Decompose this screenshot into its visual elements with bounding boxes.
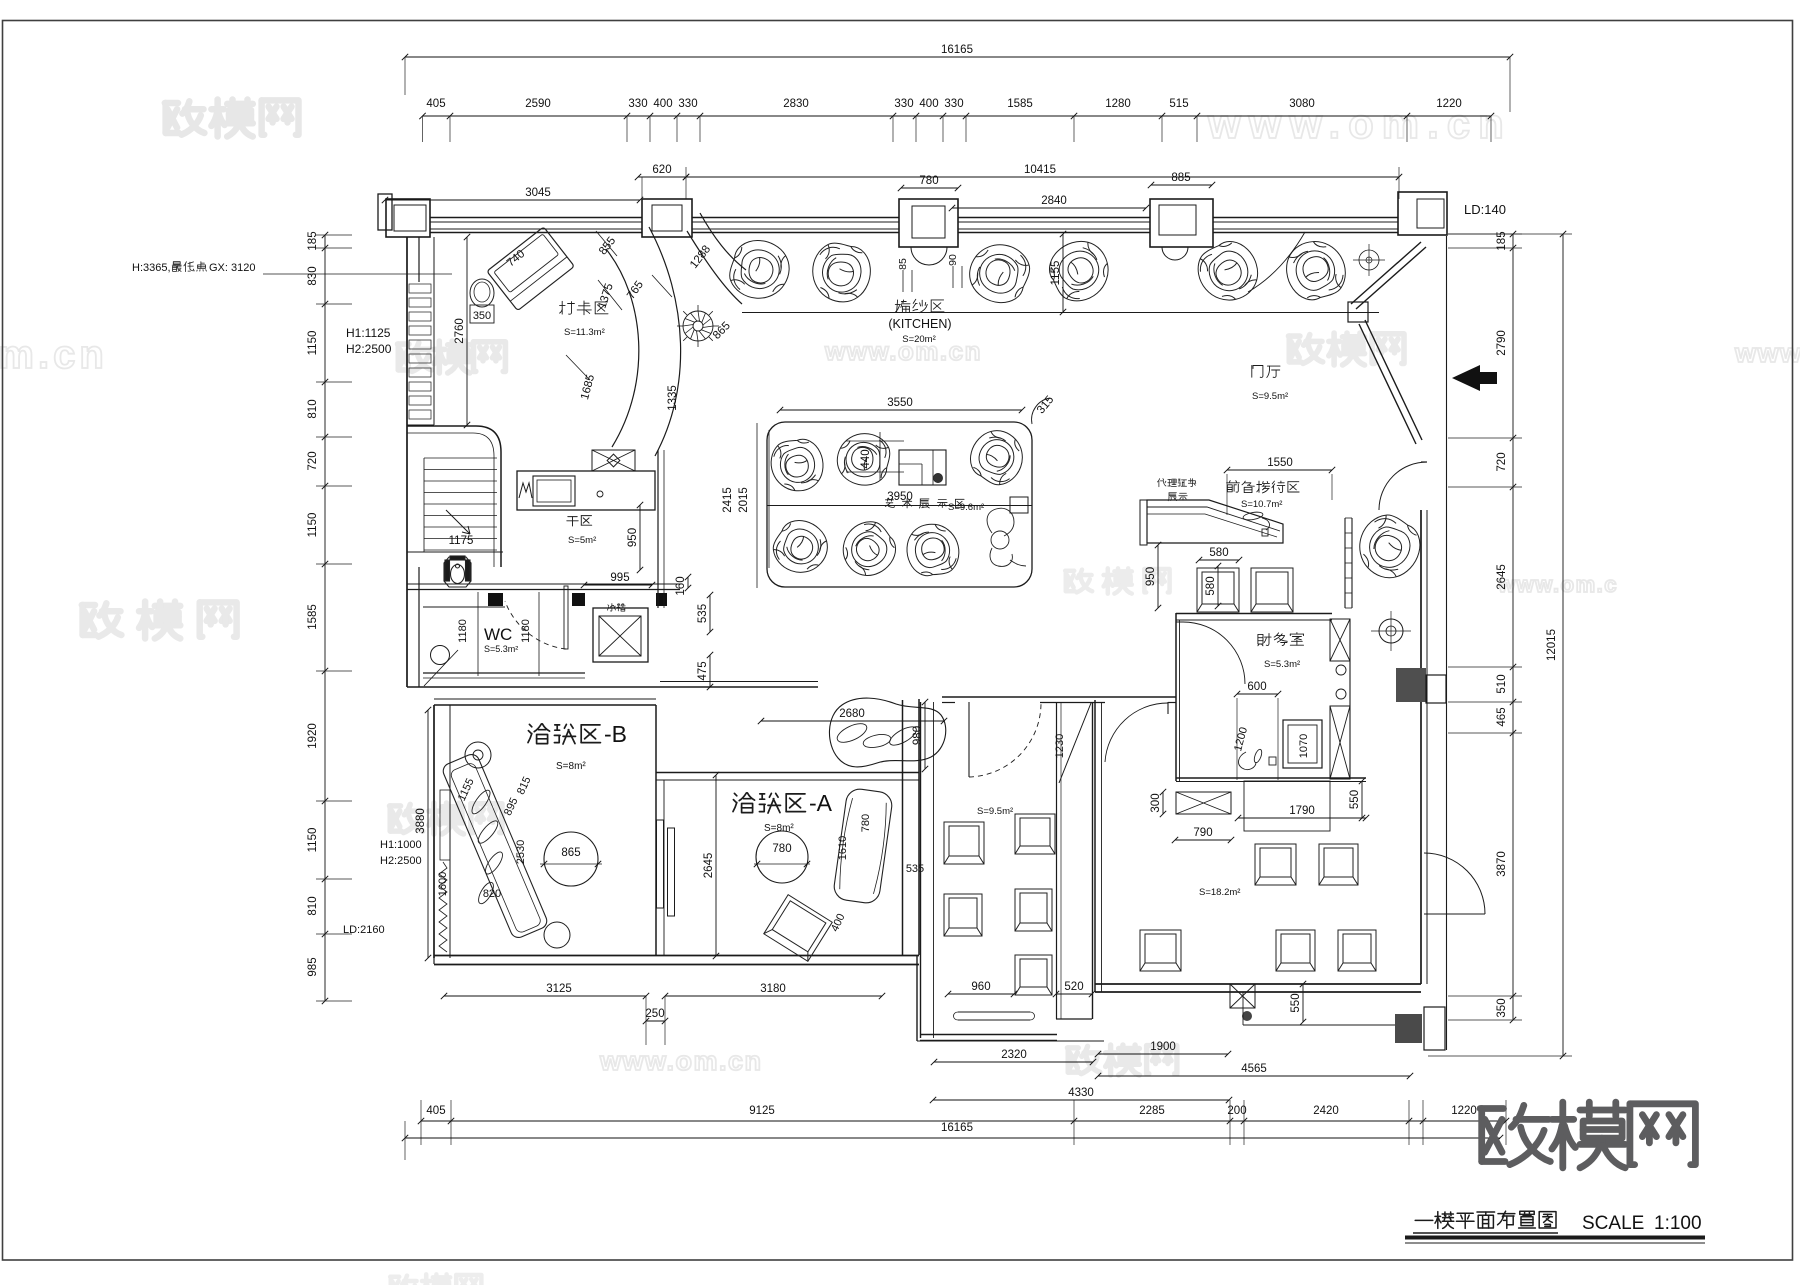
svg-text:1585: 1585 xyxy=(1007,98,1033,110)
svg-text:300: 300 xyxy=(1150,793,1162,812)
svg-text:2015: 2015 xyxy=(738,487,750,513)
svg-text:16165: 16165 xyxy=(941,1122,973,1134)
svg-text:980: 980 xyxy=(912,726,924,745)
svg-text:S=5.3m²: S=5.3m² xyxy=(1264,659,1300,670)
svg-text:515: 515 xyxy=(1169,98,1188,110)
svg-text:200: 200 xyxy=(1227,1105,1246,1117)
svg-text:www.om.cn: www.om.cn xyxy=(599,1046,763,1076)
svg-text:720: 720 xyxy=(307,451,319,470)
svg-text:995: 995 xyxy=(610,572,629,584)
svg-text:SCALE: SCALE xyxy=(1582,1213,1644,1234)
svg-text:780: 780 xyxy=(772,843,791,855)
svg-text:S=18.2m²: S=18.2m² xyxy=(1199,887,1240,898)
svg-text:85: 85 xyxy=(897,258,909,270)
svg-text:960: 960 xyxy=(971,981,990,993)
svg-text:2530: 2530 xyxy=(515,840,527,864)
svg-text:S=5.3m²: S=5.3m² xyxy=(484,644,518,654)
svg-text:830: 830 xyxy=(307,266,319,285)
svg-text:H:3365,: H:3365, xyxy=(132,262,171,274)
svg-text:2420: 2420 xyxy=(1313,1105,1339,1117)
svg-text:950: 950 xyxy=(1145,567,1157,586)
svg-text:185: 185 xyxy=(307,231,319,250)
svg-text:om.cn: om.cn xyxy=(0,333,108,377)
svg-text:www.om.cn: www.om.cn xyxy=(1207,100,1512,147)
svg-text:H2:2500: H2:2500 xyxy=(346,342,392,356)
svg-text:405: 405 xyxy=(426,98,445,110)
svg-text:330: 330 xyxy=(944,98,963,110)
svg-text:2590: 2590 xyxy=(525,98,551,110)
svg-text:550: 550 xyxy=(1290,993,1302,1012)
svg-text:1550: 1550 xyxy=(1267,457,1293,469)
svg-text:S=5m²: S=5m² xyxy=(568,535,596,546)
svg-text:2830: 2830 xyxy=(783,98,809,110)
svg-text:1155: 1155 xyxy=(1050,261,1062,286)
svg-text:1900: 1900 xyxy=(1150,1041,1176,1053)
svg-text:1790: 1790 xyxy=(1289,805,1315,817)
svg-text:350: 350 xyxy=(1496,998,1508,1017)
svg-text:S=9.5m²: S=9.5m² xyxy=(1252,391,1288,402)
svg-text:1150: 1150 xyxy=(307,513,319,538)
svg-text:3550: 3550 xyxy=(887,397,913,409)
svg-text:535: 535 xyxy=(697,604,709,623)
svg-text:1220: 1220 xyxy=(1451,1105,1477,1117)
svg-text:2840: 2840 xyxy=(1041,195,1067,207)
svg-text:950: 950 xyxy=(627,528,639,547)
svg-text:10415: 10415 xyxy=(1024,164,1056,176)
svg-text:400: 400 xyxy=(653,98,672,110)
svg-text:400: 400 xyxy=(919,98,938,110)
svg-text:330: 330 xyxy=(678,98,697,110)
svg-text:-A: -A xyxy=(809,790,833,816)
svg-text:1230: 1230 xyxy=(1054,734,1066,758)
svg-text:2680: 2680 xyxy=(839,708,865,720)
svg-text:GX: 3120: GX: 3120 xyxy=(209,262,255,274)
svg-text:2320: 2320 xyxy=(1001,1049,1027,1061)
svg-text:820: 820 xyxy=(483,888,501,900)
svg-text:1180: 1180 xyxy=(457,619,469,643)
svg-text:H1:1000: H1:1000 xyxy=(380,839,422,851)
svg-text:160: 160 xyxy=(675,576,687,595)
svg-text:885: 885 xyxy=(1171,172,1190,184)
svg-text:2790: 2790 xyxy=(1496,330,1508,356)
svg-text:4565: 4565 xyxy=(1241,1063,1267,1075)
svg-text:3870: 3870 xyxy=(1496,851,1508,877)
svg-text:510: 510 xyxy=(1496,674,1508,693)
svg-text:3045: 3045 xyxy=(525,187,551,199)
svg-text:2285: 2285 xyxy=(1139,1105,1165,1117)
svg-text:9125: 9125 xyxy=(749,1105,775,1117)
svg-text:600: 600 xyxy=(1247,681,1266,693)
svg-text:550: 550 xyxy=(1349,790,1361,809)
svg-text:720: 720 xyxy=(1496,452,1508,471)
svg-text:(KITCHEN): (KITCHEN) xyxy=(888,317,951,331)
svg-text:810: 810 xyxy=(307,399,319,418)
svg-text:LD:140: LD:140 xyxy=(1464,202,1506,217)
svg-text:S=20m²: S=20m² xyxy=(902,334,936,345)
svg-text:LD:2160: LD:2160 xyxy=(343,924,385,936)
svg-text:www.om.c: www.om.c xyxy=(1497,572,1618,597)
svg-text:1220: 1220 xyxy=(1436,98,1462,110)
svg-text:3080: 3080 xyxy=(1289,98,1315,110)
svg-text:-B: -B xyxy=(604,721,627,747)
svg-text:330: 330 xyxy=(628,98,647,110)
svg-text:2645: 2645 xyxy=(1496,564,1508,590)
svg-text:S=9.5m²: S=9.5m² xyxy=(977,806,1013,817)
svg-text:1070: 1070 xyxy=(1298,734,1310,758)
svg-text:H1:1125: H1:1125 xyxy=(346,326,391,340)
svg-text:S=9.6m²: S=9.6m² xyxy=(948,502,984,513)
svg-text:520: 520 xyxy=(1064,981,1083,993)
svg-text:2645: 2645 xyxy=(703,853,715,879)
svg-text:WC: WC xyxy=(484,625,512,644)
svg-text:780: 780 xyxy=(919,175,938,187)
svg-text:90: 90 xyxy=(947,254,959,266)
svg-text:580: 580 xyxy=(1209,547,1228,559)
svg-text:2415: 2415 xyxy=(722,487,734,513)
svg-text:465: 465 xyxy=(1496,707,1508,726)
svg-text:330: 330 xyxy=(894,98,913,110)
svg-text:985: 985 xyxy=(307,957,319,976)
svg-text:1920: 1920 xyxy=(307,723,319,749)
svg-text:3125: 3125 xyxy=(546,983,572,995)
svg-text:12015: 12015 xyxy=(1546,629,1558,661)
svg-text:S=10.7m²: S=10.7m² xyxy=(1241,499,1282,510)
svg-text:4330: 4330 xyxy=(1068,1087,1094,1099)
svg-text:580: 580 xyxy=(1205,576,1217,595)
svg-text:16165: 16165 xyxy=(941,44,973,56)
svg-text:350: 350 xyxy=(473,310,491,322)
svg-text:1585: 1585 xyxy=(307,604,319,630)
svg-text:440: 440 xyxy=(860,449,872,468)
svg-text:1175: 1175 xyxy=(449,535,474,547)
svg-text:1335: 1335 xyxy=(667,385,679,411)
svg-text:S=8m²: S=8m² xyxy=(556,761,586,772)
svg-text:790: 790 xyxy=(1193,827,1212,839)
svg-text:865: 865 xyxy=(561,847,580,859)
svg-text:1280: 1280 xyxy=(1105,98,1131,110)
svg-text:1600: 1600 xyxy=(437,872,449,896)
svg-text:780: 780 xyxy=(860,814,872,832)
svg-text:H2:2500: H2:2500 xyxy=(380,855,422,867)
svg-text:405: 405 xyxy=(426,1105,445,1117)
svg-text:3880: 3880 xyxy=(415,808,427,834)
svg-text:www.o: www.o xyxy=(1734,338,1800,368)
svg-text:2760: 2760 xyxy=(454,318,466,344)
svg-text:810: 810 xyxy=(307,896,319,915)
svg-text:1610: 1610 xyxy=(837,836,849,860)
svg-text:S=11.3m²: S=11.3m² xyxy=(564,327,605,338)
svg-text:620: 620 xyxy=(652,164,671,176)
svg-text:3180: 3180 xyxy=(760,983,786,995)
svg-text:535: 535 xyxy=(906,863,924,875)
svg-text:475: 475 xyxy=(697,661,709,680)
svg-text:1150: 1150 xyxy=(307,331,319,356)
svg-text:1180: 1180 xyxy=(520,619,532,643)
svg-text:250: 250 xyxy=(645,1008,664,1020)
svg-text:1:100: 1:100 xyxy=(1654,1213,1702,1234)
svg-text:1150: 1150 xyxy=(307,828,319,853)
